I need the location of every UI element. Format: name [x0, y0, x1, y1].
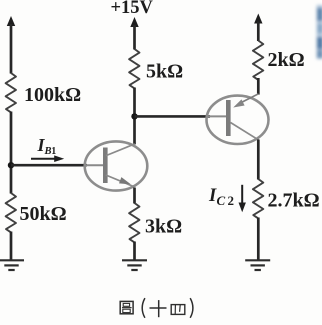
- svg-text:100kΩ: 100kΩ: [24, 84, 81, 106]
- svg-text:2kΩ: 2kΩ: [268, 49, 305, 71]
- svg-text:C: C: [217, 193, 226, 208]
- svg-text:2.7kΩ: 2.7kΩ: [268, 190, 320, 212]
- svg-text:+15V: +15V: [111, 0, 154, 18]
- svg-text:1: 1: [51, 146, 56, 157]
- svg-text:3kΩ: 3kΩ: [145, 216, 182, 238]
- svg-text:50kΩ: 50kΩ: [20, 203, 67, 225]
- svg-text:2: 2: [228, 193, 235, 208]
- svg-text:5kΩ: 5kΩ: [146, 61, 183, 83]
